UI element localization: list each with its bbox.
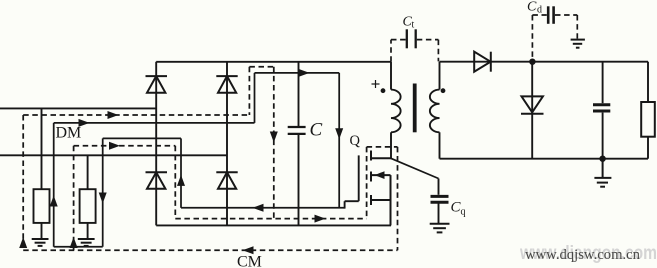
wire DM path mid horizontal — [103, 137, 181, 139]
wire freewheel diode leads — [531, 62, 533, 159]
resistor RL load — [641, 102, 655, 137]
wire DM path top horizontal — [54, 122, 255, 124]
wire CM path line1 horizontal — [23, 114, 249, 116]
wire input line L2 — [0, 154, 227, 156]
ground of Cd — [571, 40, 585, 48]
wire input line L1 — [0, 107, 156, 109]
capacitor C (bulk) — [288, 127, 306, 134]
wire DM path upper horizontal — [255, 72, 340, 74]
svg-text:t: t — [412, 20, 415, 31]
wire drain to Cq diagonal — [391, 158, 439, 178]
wire CM path line2 horizontal — [74, 145, 176, 147]
DM path arrow down right — [335, 128, 343, 139]
wire output cap bottom lead — [602, 113, 604, 159]
svg-text:C: C — [527, 0, 537, 15]
diode D6 freewheel — [521, 96, 544, 113]
ground of Cq — [430, 224, 450, 233]
mosfet body arrow — [375, 171, 385, 179]
wire CM path box left vertical — [366, 147, 368, 219]
svg-text:www.dqjsw.com.cn: www.dqjsw.com.cn — [525, 247, 641, 263]
resistor R2 (LISN line 2) — [80, 155, 96, 238]
transformer T secondary winding — [430, 62, 440, 159]
wire output cap top lead — [602, 62, 604, 103]
svg-text:C: C — [310, 120, 323, 141]
DM path arrow up left — [50, 196, 58, 207]
wire load bottom lead — [647, 137, 649, 159]
wire CM path box right vertical — [397, 147, 399, 250]
svg-text:q: q — [461, 207, 466, 218]
wire bridge right column — [226, 62, 228, 226]
diode D4 bridge bottom-right — [216, 172, 237, 188]
wire CM path inner left vertical — [73, 146, 75, 251]
CM path arrow left return — [243, 246, 254, 254]
CM path arrow right line1 — [108, 111, 119, 119]
wire C top lead — [298, 62, 300, 126]
capacitor Cd (dashed leads to earth) — [548, 6, 553, 24]
DM path arrow left bottom — [253, 204, 264, 212]
CM path arrow up left inner — [70, 237, 78, 248]
DM solid current path loop — [54, 73, 345, 247]
wire load top lead — [647, 62, 649, 102]
wire DM path return vertical — [102, 138, 104, 246]
node dot output — [529, 59, 535, 65]
transformer primary polarity dot — [381, 88, 386, 93]
mosfet gate lead — [345, 155, 359, 208]
wire bridge left column — [155, 62, 157, 226]
wire CM path top horizontal — [249, 66, 273, 68]
CM path arrow down mid — [270, 132, 278, 143]
DM path arrow down mid — [99, 193, 107, 204]
wire output return line — [440, 158, 649, 160]
svg-text:Q: Q — [350, 133, 361, 149]
wire CM path bottom horizontal — [175, 218, 366, 220]
wire DM path right vertical — [338, 73, 340, 208]
ground at output — [594, 159, 611, 187]
mosfet Q — [371, 151, 391, 226]
resistor R1 (LISN line 1) — [34, 108, 50, 238]
transformer core — [413, 84, 417, 133]
CM path arrow up left outer — [19, 237, 27, 248]
wire C bottom lead — [298, 135, 300, 226]
wire bridge bottom rail — [156, 224, 391, 226]
CM path arrow right line2 — [109, 142, 120, 150]
diode D2 bridge top-right — [216, 76, 237, 93]
wire CM path return horizontal — [23, 249, 397, 251]
svg-text:DM: DM — [56, 125, 82, 142]
transformer secondary polarity dot — [441, 88, 446, 93]
ground of R1 — [32, 239, 49, 246]
diode D1 bridge top-left — [146, 76, 168, 93]
wire DM path return horizontal — [54, 246, 103, 248]
wire CM path box top horizontal — [367, 146, 398, 148]
wire DM path mid vertical — [180, 138, 182, 207]
capacitor Ct (interwinding, dashed leads) — [407, 29, 416, 48]
DM path arrow right top — [79, 119, 90, 127]
svg-text:d: d — [537, 5, 542, 16]
capacitor Co output — [593, 105, 610, 111]
wire CM path mid vertical — [174, 146, 176, 219]
ground of R2 — [78, 239, 95, 246]
wire DM path bottom horizontal — [181, 207, 345, 209]
DM path arrow up mid — [177, 175, 185, 186]
wire CM path down vertical mid — [273, 67, 275, 219]
node dot return — [599, 156, 605, 162]
wire DM path riser — [254, 73, 256, 123]
diode D3 bridge bottom-left — [146, 172, 168, 188]
plus sign at primary — [372, 80, 380, 88]
DM path arrow right upper — [299, 69, 310, 77]
diode D5 output series — [474, 52, 491, 72]
wire DM path left vertical — [53, 123, 55, 247]
wire CM path riser at bridge — [248, 67, 250, 115]
CM path arrow right bottom — [315, 215, 326, 223]
wire output top line — [440, 61, 649, 63]
svg-text:CM: CM — [237, 254, 262, 268]
transformer T primary winding — [391, 62, 401, 158]
capacitor Cq — [438, 179, 440, 195]
wire bridge top rail — [156, 61, 391, 63]
CM dashed current paths — [23, 67, 397, 251]
wire CM path outer left vertical — [22, 115, 24, 250]
